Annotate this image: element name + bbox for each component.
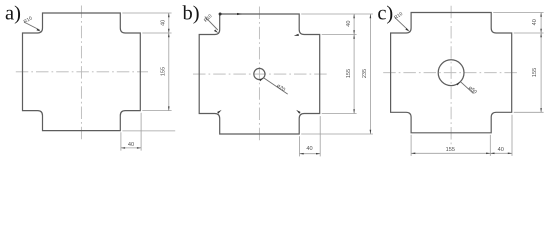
extension lines bottom (plate a) [120, 132, 122, 150]
dimension line 40/155 right (plate c) [540, 13, 542, 113]
svg-text:40: 40 [306, 146, 312, 152]
direction arrow at bottom-right fillet (plate b) [296, 110, 300, 114]
centerline horizontal (plate c) [383, 72, 518, 74]
leader D20 (plate b) [264, 78, 288, 94]
extension lines bottom (plate c) [410, 135, 412, 156]
dimension line 40 bottom (plate b) [300, 153, 321, 155]
svg-text:a): a) [5, 2, 21, 24]
direction arrow on top edge (plate b) [237, 13, 242, 15]
extension lines bottom (plate b) [299, 136, 301, 156]
direction arrow at top-right fillet (plate b) [294, 34, 299, 36]
start point dot (plate b contour) [219, 13, 222, 16]
svg-text:155: 155 [346, 69, 352, 78]
svg-text:235: 235 [362, 69, 368, 78]
extension lines right (plate b) [301, 13, 373, 15]
direction arrow at bottom-left fillet (plate b) [217, 110, 222, 114]
leader R10 (plate b) [205, 17, 218, 30]
extension lines right (plate c) [493, 12, 543, 14]
plate outline b (notched square, R10 fillets) [199, 14, 320, 134]
extension lines right (plate a) [122, 12, 171, 14]
plate outline a (notched square, R10 fillets) [23, 13, 141, 131]
plate outline c (notched square, R10 fillets) [391, 13, 512, 133]
svg-text:b): b) [182, 2, 199, 24]
svg-text:155: 155 [532, 68, 538, 77]
svg-text:c): c) [377, 2, 393, 24]
leader D50 (plate c) [461, 82, 474, 94]
stray extension line right of plate a bottom edge [122, 130, 175, 132]
svg-text:40: 40 [532, 19, 538, 25]
svg-text:40: 40 [161, 20, 167, 26]
centerline vertical (plate b) [258, 7, 260, 143]
hole circle D20 (plate b) [254, 68, 265, 79]
hole circle D50 (plate c) [438, 60, 464, 86]
dimension line 155 and 40 bottom (plate c) [411, 152, 512, 154]
dimension line 40 bottom (plate a) [121, 147, 141, 149]
svg-text:155: 155 [161, 67, 167, 76]
dimension line 40/155 right (plate a) [168, 13, 170, 111]
centerline horizontal (plate a) [16, 71, 148, 73]
leader R10 (plate a) [24, 22, 40, 30]
centerline vertical (plate a) [80, 6, 82, 140]
centerline horizontal (plate b) [193, 73, 327, 75]
svg-text:40: 40 [128, 142, 134, 148]
centerline vertical (plate c) [450, 6, 452, 147]
dimension line 235 right (plate b) [369, 14, 371, 134]
svg-text:40: 40 [498, 147, 504, 153]
svg-text:155: 155 [446, 147, 455, 153]
dimension line 40/155 right (plate b) [353, 14, 355, 114]
svg-text:40: 40 [346, 20, 352, 26]
leader R10 (plate c) [395, 18, 408, 31]
